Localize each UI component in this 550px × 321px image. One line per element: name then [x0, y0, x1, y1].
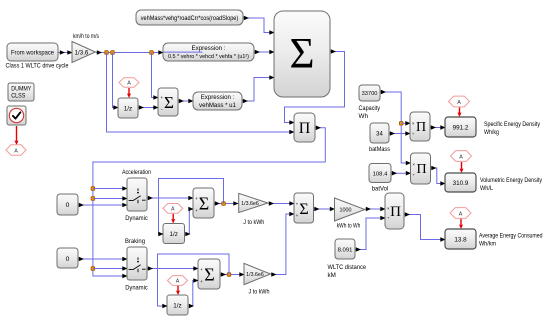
- constant block 0 braking: [57, 248, 78, 268]
- svg-text:A: A: [14, 148, 18, 154]
- svg-text:From workspace: From workspace: [11, 50, 54, 57]
- svg-text:1/z: 1/z: [169, 231, 177, 238]
- wire speed main line: [96, 50, 164, 55]
- tag hexagon A above braking unit delay: [168, 276, 188, 286]
- svg-text:-: -: [161, 107, 163, 113]
- sum block speed delta: [158, 88, 178, 116]
- tag hexagon A above display 991.2: [449, 96, 470, 107]
- svg-text:Wh: Wh: [359, 113, 369, 120]
- sum block acceleration energy: [193, 188, 214, 218]
- wire big sum to product power: [285, 49, 345, 125]
- block From workspace: [7, 43, 58, 61]
- product block volumetric energy: [411, 153, 431, 184]
- svg-text:0.5 * vehro * vehcd * vehfa *: 0.5 * vehro * vehcd * vehfa * (u1²): [168, 54, 249, 60]
- wire product1 to display 991.2: [431, 125, 446, 130]
- label Capacity Wh: [359, 105, 381, 120]
- svg-text:Expression :: Expression :: [191, 45, 225, 52]
- svg-text:13.8: 13.8: [454, 237, 467, 244]
- gain 1/3.6 km/h to m/s: [72, 33, 99, 63]
- svg-text:DUMMY: DUMMY: [11, 86, 31, 93]
- junction dot capacity: [399, 122, 403, 126]
- svg-text:Dynamic: Dynamic: [125, 215, 148, 222]
- svg-text:×: ×: [412, 121, 415, 126]
- display block 310.9: [445, 173, 476, 192]
- svg-text:A: A: [127, 81, 131, 87]
- junction dot speed 3: [150, 51, 154, 55]
- sum block braking energy: [198, 259, 220, 289]
- svg-text:kWh to Wh: kWh to Wh: [337, 223, 361, 230]
- svg-text:Capacity: Capacity: [359, 105, 381, 112]
- wire expression vehMass to big sum: [243, 75, 275, 103]
- svg-text:Π: Π: [299, 120, 311, 137]
- wire braking unit delay to sum: [189, 278, 199, 308]
- junction dot power accel 2: [91, 197, 95, 201]
- display block 13.8: [445, 229, 476, 249]
- svg-text:1/z: 1/z: [173, 303, 181, 310]
- svg-text:Expression :: Expression :: [201, 94, 235, 101]
- svg-text:Acceleration: Acceleration: [122, 169, 151, 176]
- svg-text:+: +: [296, 202, 299, 207]
- gain 1/3.6e6 acceleration J to kWh: [239, 193, 268, 226]
- svg-text:Class 1 WLTC drive cycle: Class 1 WLTC drive cycle: [6, 63, 69, 70]
- label Braking: [125, 238, 145, 245]
- red arrow check to tag A: [15, 126, 19, 145]
- svg-text:Braking: Braking: [125, 238, 145, 245]
- wire aero expression to big sum: [255, 50, 275, 55]
- svg-text:310.9: 310.9: [453, 180, 469, 187]
- svg-text:Σ: Σ: [164, 93, 174, 112]
- svg-text:×: ×: [387, 206, 390, 212]
- tag hexagon A above top unit delay: [119, 78, 139, 88]
- svg-text:Wh/L: Wh/L: [480, 185, 493, 192]
- red arrow tag to display 310.9: [460, 162, 464, 173]
- wire 34 to product1 divide: [390, 131, 411, 136]
- junction dot power accel 1: [91, 187, 95, 191]
- gain 1000 kWh to Wh: [335, 198, 365, 230]
- wire braking sum output: [221, 272, 245, 277]
- block Expression vehMass*u1: [193, 92, 242, 110]
- svg-text:km/h to m/s: km/h to m/s: [73, 33, 99, 40]
- label Average Energy Consumed Wh/km: [479, 232, 543, 247]
- product block specific energy: [410, 112, 430, 141]
- tag hexagon A left: [6, 145, 26, 156]
- junction dot accel feedback: [222, 202, 226, 206]
- svg-text:1000: 1000: [340, 208, 352, 214]
- svg-text:Σ: Σ: [199, 194, 209, 214]
- svg-text:34: 34: [376, 132, 383, 138]
- label Volumetric Energy Density Wh/L: [480, 177, 543, 192]
- red arrow tag to display 13.8: [459, 219, 463, 229]
- wire braking switch to braking sum: [148, 266, 199, 271]
- svg-text:Π: Π: [390, 204, 401, 220]
- wire 33700 capacity line: [381, 90, 412, 166]
- svg-text:Average Energy Consumed: Average Energy Consumed: [479, 232, 543, 239]
- wire capacity branch to product1: [401, 121, 410, 126]
- block Expression aero drag: [163, 43, 254, 61]
- svg-text:Dynamic: Dynamic: [125, 285, 148, 292]
- svg-text:Σ: Σ: [289, 31, 314, 78]
- svg-text:+: +: [160, 95, 163, 100]
- svg-text:J to kWh: J to kWh: [249, 289, 270, 296]
- svg-text:A: A: [459, 211, 463, 217]
- svg-text:33700: 33700: [362, 91, 378, 97]
- svg-text:Specific Energy Density: Specific Energy Density: [484, 121, 541, 128]
- sum block big sigma total force: [274, 11, 330, 97]
- wire power to accel switch input2: [93, 196, 128, 201]
- junction dot speed 2: [111, 51, 115, 55]
- wire small sum to expression vehMass*u1: [179, 99, 194, 104]
- svg-text:batVol: batVol: [372, 186, 389, 193]
- tag hexagon A above display 310.9: [451, 151, 472, 162]
- constant block 0 acceleration: [57, 194, 78, 215]
- wire accel switch to accel sum: [148, 196, 194, 201]
- svg-text:vehMass*vehg*roadCrr*cos(roadS: vehMass*vehg*roadCrr*cos(roadSlope): [141, 15, 239, 22]
- svg-text:Wh/km: Wh/km: [479, 240, 496, 247]
- display block 991.2: [445, 117, 476, 137]
- gain 1/3.6e6 braking J to kWh: [244, 263, 271, 295]
- block unit delay 1/z acceleration: [163, 224, 185, 244]
- product block divide by distance: [385, 193, 404, 229]
- block vehMass*vehg*roadCrr*cos(roadSlope): [136, 10, 243, 25]
- wire roadCrr force to big sum: [244, 16, 275, 35]
- svg-text:A: A: [171, 207, 175, 213]
- constant block 8.091 WLTC distance: [335, 239, 355, 259]
- svg-text:+: +: [195, 208, 198, 213]
- svg-text:1/3.6e6: 1/3.6e6: [241, 201, 259, 207]
- red arrow tag to braking unit delay: [176, 286, 180, 295]
- junction dot braking feedback: [227, 273, 231, 277]
- label Acceleration: [122, 169, 151, 176]
- svg-text:+: +: [195, 196, 198, 201]
- svg-text:A: A: [176, 279, 180, 285]
- red arrow tag to top unit delay: [127, 88, 131, 98]
- svg-text:108.4: 108.4: [373, 172, 388, 178]
- svg-text:Σ: Σ: [204, 265, 214, 285]
- wire total sum to gain 1000: [314, 207, 335, 212]
- wire speed to product velocity input: [107, 53, 295, 135]
- wire accel unit delay to sum: [185, 207, 194, 237]
- wire constant 0 to braking switch input1: [79, 257, 128, 262]
- wire accel feedback loop: [158, 179, 223, 237]
- block model advisor check: [7, 106, 26, 125]
- svg-text:Volumetric Energy Density: Volumetric Energy Density: [480, 177, 543, 184]
- block unit delay 1/z top: [118, 98, 138, 118]
- tag hexagon A above display 13.8: [450, 208, 471, 219]
- svg-text:J to kWh: J to kWh: [243, 219, 264, 226]
- wire From workspace to gain: [59, 50, 73, 55]
- red arrow tag to accel unit delay: [171, 214, 175, 224]
- wire constant 0 to accel switch input3: [79, 203, 128, 208]
- label Dynamic braking: [125, 285, 148, 292]
- svg-text:0: 0: [66, 256, 70, 263]
- svg-text:+: +: [200, 279, 203, 284]
- wire 8.091 to division product: [356, 216, 386, 252]
- label batMass: [369, 146, 390, 153]
- wire 108.4 to product2 divide: [392, 171, 412, 176]
- wire division product to display 13.8: [405, 212, 446, 242]
- wire gain 1000 to division product: [365, 207, 385, 212]
- wire product2 to display 310.9: [431, 166, 446, 186]
- svg-text:÷: ÷: [387, 217, 390, 222]
- label batVol: [372, 186, 389, 193]
- tag hexagon A above accel unit delay: [163, 204, 183, 214]
- svg-text:1/3.6: 1/3.6: [75, 49, 89, 56]
- svg-text:991.2: 991.2: [453, 125, 469, 132]
- sum block total energy: [294, 193, 314, 223]
- wire braking feedback loop: [158, 254, 230, 308]
- svg-text:batMass: batMass: [369, 146, 390, 153]
- wire braking gain to bottom sum: [271, 212, 295, 277]
- svg-text:vehMass * u1: vehMass * u1: [199, 102, 237, 109]
- wire power line to switches: [93, 126, 325, 279]
- label Class 1 WLTC drive cycle: [6, 63, 69, 70]
- svg-text:1/3.6e6: 1/3.6e6: [246, 272, 264, 278]
- svg-text:A: A: [457, 100, 461, 106]
- wire speed to unit delay: [113, 53, 119, 110]
- svg-text:+: +: [296, 213, 299, 218]
- svg-text:1/z: 1/z: [124, 106, 132, 113]
- label Specific Energy Density Wh/kg: [484, 121, 541, 136]
- block DUMMY CLSS: [8, 83, 34, 101]
- svg-text:Π: Π: [416, 162, 426, 177]
- wire accel sum output: [215, 201, 239, 206]
- product block power F*v: [294, 113, 315, 142]
- svg-text:CLSS: CLSS: [11, 93, 25, 100]
- svg-text:Π: Π: [416, 120, 426, 135]
- label WLTC distance kM: [328, 264, 367, 279]
- svg-text:WLTC distance: WLTC distance: [328, 264, 367, 271]
- wire power to braking switch input2: [93, 266, 128, 271]
- block unit delay 1/z braking: [167, 295, 188, 315]
- svg-text:A: A: [459, 154, 463, 160]
- wire accel gain to bottom sum: [268, 201, 294, 206]
- switch block acceleration Dynamic: [127, 178, 147, 211]
- svg-text:Σ: Σ: [299, 201, 308, 218]
- switch block braking Dynamic: [127, 247, 147, 280]
- junction dot speed 1: [105, 51, 109, 55]
- svg-text:8.091: 8.091: [338, 248, 353, 254]
- wire top unit delay to small sum: [139, 105, 159, 110]
- svg-text:kM: kM: [328, 272, 336, 279]
- svg-text:×: ×: [412, 162, 415, 167]
- wire power to accel switch input1: [93, 186, 128, 191]
- constant block 34 batMass: [370, 123, 389, 143]
- svg-text:+: +: [200, 267, 203, 272]
- constant block 108.4 batVol: [369, 164, 391, 183]
- wire speed to small sum plus input: [152, 53, 159, 100]
- junction dot power braking: [91, 267, 95, 271]
- constant block 33700 Capacity: [359, 85, 380, 101]
- svg-text:Wh/kg: Wh/kg: [484, 129, 499, 136]
- svg-text:0: 0: [66, 202, 70, 209]
- label Dynamic acceleration: [125, 215, 148, 222]
- red arrow tag to display 991.2: [458, 108, 462, 118]
